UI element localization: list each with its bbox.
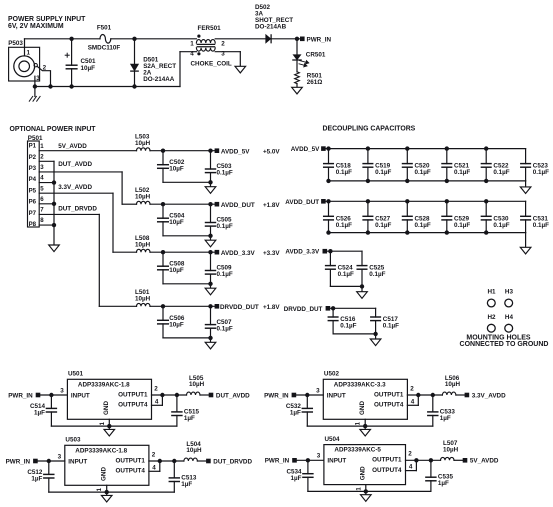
svg-text:0.1µF: 0.1µF [415, 222, 431, 229]
svg-text:INPUT: INPUT [68, 458, 87, 465]
svg-text:OUTPUT1: OUTPUT1 [372, 457, 402, 464]
svg-text:0.1µF: 0.1µF [369, 271, 385, 278]
svg-text:1µF: 1µF [440, 415, 451, 422]
svg-text:DUT_DRVDD: DUT_DRVDD [213, 458, 252, 465]
svg-text:GND: GND [103, 401, 110, 415]
svg-text:2: 2 [410, 385, 414, 392]
svg-text:INPUT: INPUT [327, 392, 346, 399]
svg-text:U501: U501 [68, 371, 84, 378]
svg-text:DRVDD_DUT: DRVDD_DUT [284, 306, 323, 313]
svg-text:1: 1 [356, 487, 362, 491]
svg-text:0.1µF: 0.1µF [493, 222, 509, 229]
svg-text:+1.8V: +1.8V [263, 304, 280, 311]
svg-text:PWR_IN: PWR_IN [265, 458, 290, 465]
svg-text:1µF: 1µF [290, 410, 301, 417]
svg-text:3: 3 [316, 387, 320, 394]
svg-text:10µH: 10µH [135, 193, 151, 200]
svg-text:1µF: 1µF [181, 481, 192, 488]
svg-text:ADP3339AKC-1.8: ADP3339AKC-1.8 [75, 447, 127, 454]
svg-text:0.1µF: 0.1µF [415, 169, 431, 176]
svg-text:4: 4 [411, 398, 415, 405]
svg-text:3: 3 [60, 387, 64, 394]
svg-text:2: 2 [40, 153, 44, 160]
svg-text:+3.3V: +3.3V [263, 250, 280, 257]
svg-text:PWR_IN: PWR_IN [6, 458, 31, 465]
svg-text:OUTPUT4: OUTPUT4 [374, 402, 404, 409]
svg-text:0.1µF: 0.1µF [340, 323, 356, 330]
svg-text:H1: H1 [488, 289, 497, 296]
svg-text:P1: P1 [29, 143, 37, 150]
svg-text:ADP3339AKC-1.8: ADP3339AKC-1.8 [78, 381, 130, 388]
svg-text:+5.0V: +5.0V [263, 148, 280, 155]
svg-text:P3: P3 [29, 165, 37, 172]
svg-text:P4: P4 [29, 176, 37, 183]
svg-text:0.1µF: 0.1µF [493, 169, 509, 176]
svg-text:10µF: 10µF [169, 321, 184, 328]
svg-text:10µF: 10µF [81, 65, 96, 72]
svg-text:0.1µF: 0.1µF [217, 271, 233, 278]
svg-text:10µH: 10µH [189, 381, 205, 388]
svg-text:AVDD_5V: AVDD_5V [291, 146, 320, 153]
svg-text:P8: P8 [29, 221, 37, 228]
svg-text:DECOUPLING CAPACITORS: DECOUPLING CAPACITORS [323, 126, 416, 133]
svg-text:1µF: 1µF [438, 480, 449, 487]
svg-text:4: 4 [152, 464, 156, 471]
svg-text:0.1µF: 0.1µF [338, 271, 354, 278]
svg-text:OPTIONAL POWER INPUT: OPTIONAL POWER INPUT [10, 126, 97, 133]
svg-text:0.1µF: 0.1µF [217, 223, 233, 230]
svg-text:0.1µF: 0.1µF [533, 169, 549, 176]
svg-text:AVDD_3.3V: AVDD_3.3V [221, 250, 256, 257]
svg-text:ADP3339AKC-5: ADP3339AKC-5 [334, 447, 381, 454]
svg-text:10µF: 10µF [169, 267, 184, 274]
svg-text:1µF: 1µF [34, 410, 45, 417]
svg-text:CR501: CR501 [306, 52, 326, 59]
svg-text:P7: P7 [29, 210, 37, 217]
svg-text:0.1µF: 0.1µF [454, 169, 470, 176]
svg-text:DO-214AA: DO-214AA [143, 76, 175, 83]
svg-text:U504: U504 [325, 436, 341, 443]
svg-text:P2: P2 [29, 154, 37, 161]
svg-text:5V_AVDD: 5V_AVDD [58, 143, 87, 150]
svg-text:H4: H4 [505, 314, 514, 321]
svg-text:3: 3 [36, 75, 40, 82]
svg-text:4: 4 [190, 51, 194, 58]
svg-text:3: 3 [40, 164, 44, 171]
svg-text:OUTPUT4: OUTPUT4 [118, 402, 148, 409]
svg-text:3: 3 [58, 453, 62, 460]
svg-text:PWR_IN: PWR_IN [307, 36, 332, 43]
svg-text:5: 5 [40, 185, 44, 192]
svg-text:FER501: FER501 [198, 25, 222, 32]
svg-text:GND: GND [360, 466, 367, 480]
svg-text:OUTPUT1: OUTPUT1 [374, 391, 404, 398]
svg-text:P503: P503 [8, 40, 23, 47]
svg-text:U503: U503 [65, 437, 81, 444]
svg-text:1: 1 [40, 143, 44, 150]
svg-text:10µH: 10µH [186, 447, 202, 454]
svg-text:OUTPUT4: OUTPUT4 [116, 468, 146, 475]
svg-text:6: 6 [40, 196, 44, 203]
svg-text:10µH: 10µH [135, 241, 151, 248]
svg-text:GND: GND [359, 401, 366, 415]
svg-text:1: 1 [100, 421, 106, 425]
svg-text:CHOKE_COIL: CHOKE_COIL [191, 61, 232, 68]
svg-text:0.1µF: 0.1µF [533, 222, 549, 229]
svg-text:AVDD_5V: AVDD_5V [221, 148, 250, 155]
svg-text:H3: H3 [505, 289, 514, 296]
svg-text:F501: F501 [97, 25, 112, 32]
svg-text:0.1µF: 0.1µF [375, 169, 391, 176]
svg-text:0.1µF: 0.1µF [336, 222, 352, 229]
svg-text:4: 4 [40, 175, 44, 182]
svg-text:10µF: 10µF [169, 219, 184, 226]
svg-text:0.1µF: 0.1µF [217, 170, 233, 177]
svg-text:U502: U502 [324, 371, 340, 378]
svg-text:PWR_IN: PWR_IN [8, 392, 33, 399]
svg-text:ADP3339AKC-3.3: ADP3339AKC-3.3 [334, 381, 386, 388]
svg-text:1: 1 [190, 40, 194, 47]
svg-text:2: 2 [43, 65, 47, 72]
svg-text:10µH: 10µH [135, 140, 151, 147]
svg-text:1µF: 1µF [291, 475, 302, 482]
svg-text:5V_AVDD: 5V_AVDD [470, 458, 499, 465]
svg-text:PWR_IN: PWR_IN [264, 392, 289, 399]
svg-text:10µH: 10µH [445, 381, 461, 388]
svg-text:CONNECTED TO GROUND: CONNECTED TO GROUND [460, 341, 549, 348]
svg-text:3.3V_AVDD: 3.3V_AVDD [472, 392, 506, 399]
svg-text:0.1µF: 0.1µF [375, 222, 391, 229]
svg-text:OUTPUT4: OUTPUT4 [372, 467, 402, 474]
svg-text:C501: C501 [81, 58, 97, 65]
svg-text:0.1µF: 0.1µF [217, 325, 233, 332]
svg-text:1µF: 1µF [31, 476, 42, 483]
svg-text:1: 1 [356, 421, 362, 425]
svg-text:10µF: 10µF [169, 166, 184, 173]
svg-text:SMDC110F: SMDC110F [88, 44, 121, 51]
svg-text:0.1µF: 0.1µF [336, 169, 352, 176]
svg-text:10µH: 10µH [135, 296, 151, 303]
svg-text:AVDD_DUT: AVDD_DUT [285, 199, 319, 206]
svg-text:AVDD_DUT: AVDD_DUT [221, 202, 255, 209]
svg-text:H2: H2 [488, 314, 497, 321]
svg-text:OUTPUT1: OUTPUT1 [118, 391, 148, 398]
svg-text:P6: P6 [29, 199, 37, 206]
svg-text:1: 1 [27, 50, 31, 57]
svg-text:DO-214AB: DO-214AB [255, 23, 287, 30]
svg-text:2: 2 [221, 40, 225, 47]
svg-text:3: 3 [317, 453, 321, 460]
svg-text:8: 8 [40, 217, 44, 224]
svg-text:2: 2 [408, 451, 412, 458]
svg-text:DUT_AVDD: DUT_AVDD [58, 161, 92, 168]
svg-text:+1.8V: +1.8V [263, 202, 280, 209]
svg-text:DUT_AVDD: DUT_AVDD [216, 392, 250, 399]
svg-text:DUT_DRVDD: DUT_DRVDD [58, 205, 97, 212]
svg-text:4: 4 [409, 464, 413, 471]
svg-text:P5: P5 [29, 187, 37, 194]
svg-text:INPUT: INPUT [71, 392, 90, 399]
svg-text:GND: GND [100, 467, 107, 481]
svg-text:OUTPUT1: OUTPUT1 [116, 457, 146, 464]
svg-text:AVDD_3.3V: AVDD_3.3V [285, 249, 320, 256]
svg-text:10µH: 10µH [443, 447, 459, 454]
svg-text:2: 2 [152, 451, 156, 458]
svg-text:INPUT: INPUT [327, 458, 346, 465]
svg-text:2: 2 [154, 385, 158, 392]
svg-text:0.1µF: 0.1µF [383, 323, 399, 330]
svg-text:1µF: 1µF [184, 415, 195, 422]
svg-text:261Ω: 261Ω [307, 79, 323, 86]
svg-text:4: 4 [155, 398, 159, 405]
svg-text:0.1µF: 0.1µF [454, 222, 470, 229]
svg-text:3.3V_AVDD: 3.3V_AVDD [58, 184, 92, 191]
svg-text:7: 7 [40, 207, 44, 214]
svg-text:DRVDD_DUT: DRVDD_DUT [220, 304, 259, 311]
svg-text:1: 1 [97, 487, 103, 491]
svg-text:6V, 2V MAXIMUM: 6V, 2V MAXIMUM [8, 23, 64, 30]
